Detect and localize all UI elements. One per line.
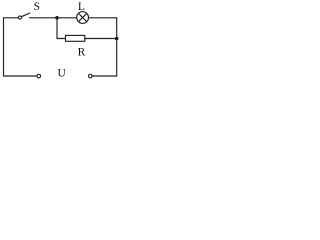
node junction left xyxy=(55,16,59,20)
switch S blade xyxy=(22,13,30,17)
wire left branch vertical xyxy=(56,18,58,39)
svg-text:R: R xyxy=(78,46,86,58)
wire lamp to right corner xyxy=(89,17,117,19)
lamp L cross stroke 1 xyxy=(78,13,86,21)
wire top-left horizontal xyxy=(4,17,19,19)
svg-text:L: L xyxy=(78,1,85,13)
node junction right xyxy=(115,37,119,41)
terminal right xyxy=(89,74,93,78)
lamp L cross stroke 2 xyxy=(78,13,86,21)
terminal left xyxy=(37,74,41,78)
resistor R body xyxy=(66,35,85,41)
wire resistor to right junction xyxy=(85,38,117,40)
wire right vertical xyxy=(116,18,118,76)
svg-text:S: S xyxy=(34,1,40,13)
lamp L circle xyxy=(77,12,89,24)
switch S contact circle xyxy=(18,16,21,19)
wire switch to lamp xyxy=(30,17,77,19)
wire junction to resistor xyxy=(57,38,66,40)
wire left vertical xyxy=(3,18,5,76)
wire bottom-left horizontal xyxy=(4,75,37,77)
wire bottom-right horizontal xyxy=(92,75,117,77)
svg-text:U: U xyxy=(58,68,67,80)
